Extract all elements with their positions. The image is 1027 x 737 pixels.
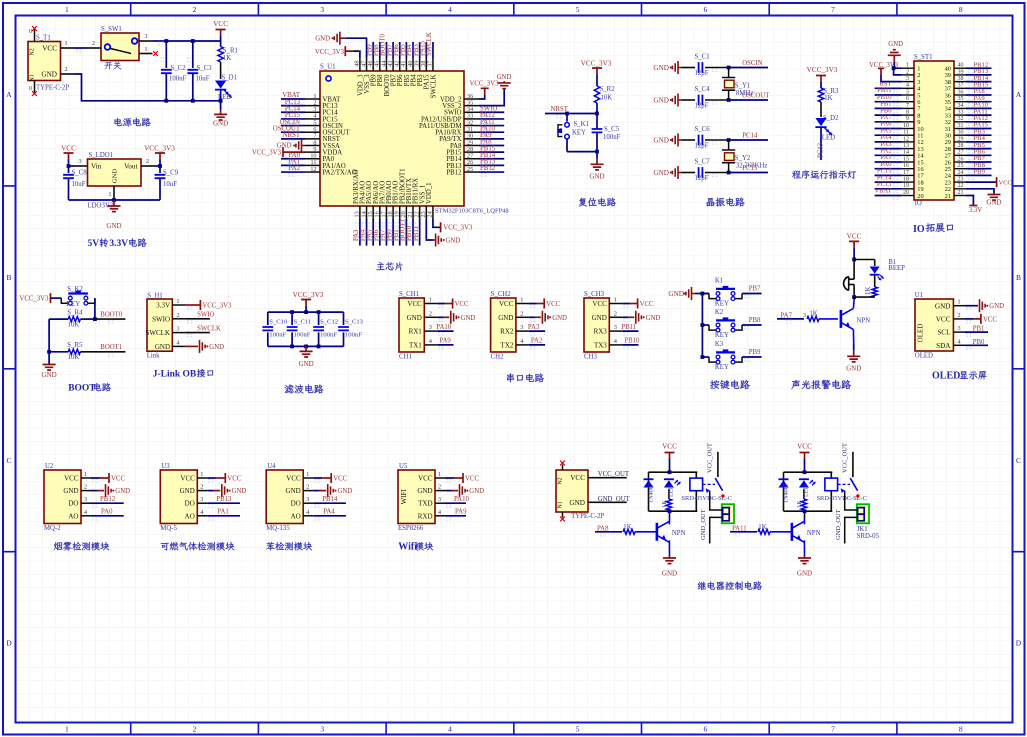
svg-text:S_C12: S_C12 bbox=[320, 319, 338, 326]
pin stub T2 bottom bbox=[562, 512, 564, 518]
pin U1 33 PA12/USB/DP bbox=[464, 118, 479, 120]
svg-text:2: 2 bbox=[193, 725, 197, 734]
pin U1 28 PB15 bbox=[464, 151, 479, 153]
svg-text:1: 1 bbox=[306, 471, 309, 478]
relay coil SRD-05VDC-SL-C bbox=[695, 472, 697, 478]
svg-text:12pF: 12pF bbox=[695, 143, 709, 150]
svg-text:GND: GND bbox=[653, 169, 669, 177]
junction bbox=[164, 99, 168, 103]
pin U1 13 PA3/RX/AO bbox=[359, 206, 361, 219]
pin U1 24 VDD_1 bbox=[432, 206, 434, 219]
svg-text:K3: K3 bbox=[715, 341, 724, 348]
title 串口电路 bbox=[507, 373, 514, 382]
svg-text:1N4007: 1N4007 bbox=[783, 483, 790, 503]
pin stub T1 shield top bbox=[34, 30, 36, 42]
svg-text:3: 3 bbox=[803, 312, 806, 319]
pin U1 45 PB8 bbox=[379, 58, 381, 71]
svg-text:SWCLK: SWCLK bbox=[146, 329, 171, 337]
svg-text:WIFI: WIFI bbox=[400, 489, 408, 505]
wire/net PB9 bbox=[372, 42, 374, 58]
pin U1 35 VSS_2 bbox=[464, 105, 479, 107]
wire/net PA7 left bbox=[875, 121, 902, 123]
svg-text:4: 4 bbox=[448, 725, 452, 734]
net PA10 bbox=[445, 502, 466, 504]
title 苯检测模块 bbox=[266, 542, 275, 550]
svg-text:VCC: VCC bbox=[213, 20, 228, 28]
power GND at VSS_3 bbox=[346, 38, 367, 58]
svg-text:GND: GND bbox=[213, 120, 228, 128]
svg-text:7: 7 bbox=[831, 5, 835, 14]
svg-text:CH2: CH2 bbox=[491, 353, 504, 360]
ground GND S_CH2 bbox=[529, 316, 535, 318]
ground GND S_CH3 bbox=[622, 316, 628, 318]
junction bbox=[93, 317, 97, 321]
wire filter top rail bbox=[268, 311, 344, 313]
svg-text:S_CH3: S_CH3 bbox=[584, 291, 605, 298]
svg-text:AO: AO bbox=[291, 512, 301, 520]
svg-text:12: 12 bbox=[903, 136, 909, 142]
wire/net PA12 bbox=[479, 118, 504, 120]
svg-text:3: 3 bbox=[957, 325, 960, 332]
svg-text:SWCLK: SWCLK bbox=[430, 74, 437, 98]
pin ST1 14 bbox=[902, 154, 914, 156]
svg-text:VCC_3V3: VCC_3V3 bbox=[202, 303, 232, 310]
svg-text:12pF: 12pF bbox=[695, 103, 709, 110]
pin U1 41 PB5 bbox=[405, 58, 407, 71]
svg-text:GND: GND bbox=[646, 315, 661, 322]
pin ST1 8 bbox=[902, 114, 914, 116]
svg-text:VCC: VCC bbox=[936, 316, 951, 324]
svg-text:Vout: Vout bbox=[124, 163, 137, 171]
wire/net PC14 left bbox=[875, 181, 902, 183]
svg-text:U4: U4 bbox=[267, 463, 276, 470]
junction bbox=[595, 112, 599, 116]
svg-text:GND: GND bbox=[63, 487, 78, 495]
junction bbox=[191, 39, 195, 43]
ground GND boot bbox=[43, 364, 56, 370]
svg-text:DO: DO bbox=[291, 500, 301, 508]
title 按键电路 bbox=[710, 380, 719, 389]
net VCC_OUT bbox=[588, 477, 601, 479]
wire/net PA3 bbox=[359, 219, 361, 246]
pin U1 2 PC13 bbox=[305, 105, 320, 107]
svg-text:9: 9 bbox=[906, 116, 909, 122]
svg-text:KEY: KEY bbox=[715, 332, 729, 339]
svg-text:3: 3 bbox=[200, 496, 203, 503]
power VCC U5 bbox=[445, 477, 454, 479]
svg-text:VCC: VCC bbox=[61, 145, 76, 153]
svg-text:BOOT1: BOOT1 bbox=[100, 344, 122, 351]
svg-text:NRST: NRST bbox=[283, 132, 301, 139]
svg-text:12pF: 12pF bbox=[695, 70, 709, 77]
svg-text:VCC: VCC bbox=[418, 475, 433, 483]
svg-text:PA1: PA1 bbox=[217, 509, 228, 516]
wire/net OSCOUT bbox=[729, 99, 768, 101]
relay coil SRD-05VDC-SL-C bbox=[830, 472, 832, 478]
junction bbox=[852, 258, 856, 262]
svg-text:GND: GND bbox=[42, 371, 57, 379]
svg-text:OLED: OLED bbox=[917, 324, 925, 343]
wire SW1 to VCC rail bbox=[153, 40, 221, 42]
wire/net PC15 bbox=[281, 118, 305, 120]
wire/net OSCOUT bbox=[281, 131, 305, 133]
svg-text:B: B bbox=[1016, 273, 1021, 282]
pin ST1 19 bbox=[902, 188, 914, 190]
power VCC_3V3 jlink bbox=[185, 304, 200, 306]
svg-text:TX3: TX3 bbox=[594, 341, 607, 349]
svg-text:PB11: PB11 bbox=[621, 324, 636, 331]
svg-text:0: 0 bbox=[29, 86, 32, 92]
pin U1 3 PC14 bbox=[305, 111, 320, 113]
wire/net PA10 right bbox=[966, 107, 992, 109]
net PB10 bbox=[622, 344, 638, 346]
net PA9 bbox=[445, 515, 466, 517]
wire reset bottom bbox=[567, 151, 597, 153]
svg-text:PB13: PB13 bbox=[216, 496, 232, 503]
key S_K1 bbox=[566, 114, 568, 122]
module U2 MQ-2 bbox=[44, 470, 81, 524]
pin ST1 30 bbox=[954, 134, 966, 136]
pin U1 30 PA9/TX bbox=[464, 138, 479, 140]
wire/net PB10 left bbox=[875, 101, 902, 103]
pin ST1 23 bbox=[954, 181, 966, 183]
net PA4 bbox=[313, 515, 346, 517]
module U4 MQ-135 bbox=[266, 470, 303, 524]
wire/net PA11 bbox=[479, 125, 504, 127]
net GND_OUT bbox=[588, 501, 601, 503]
wire/net OSCIN bbox=[729, 67, 768, 69]
svg-text:12pF: 12pF bbox=[695, 175, 709, 182]
ground GND filter bbox=[300, 346, 313, 357]
pin ST1 28 bbox=[954, 148, 966, 150]
pin U1 9 VDDA bbox=[305, 151, 320, 153]
svg-text:22: 22 bbox=[958, 183, 964, 189]
wire GND rail power bbox=[74, 74, 221, 101]
svg-text:VCC: VCC bbox=[546, 301, 560, 308]
capacitor S_C8 bbox=[69, 165, 75, 167]
diode LED relay bbox=[664, 480, 674, 487]
pin ST1 36 bbox=[954, 94, 966, 96]
net PA1 bbox=[207, 515, 240, 517]
svg-text:30: 30 bbox=[958, 130, 964, 136]
svg-text:AO: AO bbox=[185, 512, 195, 520]
wire/net PB5 right bbox=[966, 148, 992, 150]
svg-text:2: 2 bbox=[200, 484, 203, 491]
pin ST1 1 bbox=[902, 67, 914, 69]
pin ST1 31 bbox=[954, 128, 966, 130]
svg-text:D: D bbox=[6, 639, 12, 648]
svg-text:GND: GND bbox=[668, 290, 684, 298]
svg-text:Wifi: Wifi bbox=[398, 542, 417, 553]
svg-text:34: 34 bbox=[958, 103, 964, 109]
svg-text:VCC: VCC bbox=[333, 476, 347, 483]
svg-text:Link: Link bbox=[147, 353, 160, 360]
svg-text:7: 7 bbox=[906, 103, 909, 109]
svg-text:1: 1 bbox=[144, 46, 147, 53]
svg-text:7: 7 bbox=[831, 725, 835, 734]
net PB9 bbox=[742, 356, 762, 358]
svg-text:OLED: OLED bbox=[915, 352, 933, 359]
pin U1 38 PA15 bbox=[425, 58, 427, 71]
net PB11 bbox=[622, 330, 638, 332]
svg-text:40: 40 bbox=[958, 63, 964, 69]
wire collector relay bbox=[669, 511, 671, 517]
svg-text:2: 2 bbox=[92, 40, 95, 47]
svg-text:S_T1: S_T1 bbox=[36, 35, 51, 42]
capacitor S_C9 bbox=[155, 165, 161, 167]
svg-text:S_R5: S_R5 bbox=[67, 342, 83, 349]
svg-text:3: 3 bbox=[176, 326, 179, 333]
svg-text:PB8: PB8 bbox=[749, 317, 761, 324]
svg-text:S_ST1: S_ST1 bbox=[914, 54, 933, 61]
net SWIO jlink bbox=[185, 318, 210, 320]
svg-text:PA10: PA10 bbox=[454, 496, 469, 503]
wire/net PA6 bbox=[379, 219, 381, 246]
wire/net SWIO bbox=[479, 111, 504, 113]
power VCC io right bbox=[966, 181, 997, 183]
ground GND ldo bbox=[112, 198, 116, 202]
svg-text:37: 37 bbox=[427, 61, 434, 67]
wire/net PC14 bbox=[281, 111, 305, 113]
svg-text:1: 1 bbox=[957, 299, 960, 306]
title 烟雾检测模块 bbox=[54, 542, 63, 550]
switch S_SW1 bbox=[101, 33, 139, 61]
svg-text:35: 35 bbox=[958, 96, 964, 102]
svg-text:PA9: PA9 bbox=[439, 338, 451, 345]
wire/net PA1 bbox=[281, 164, 305, 166]
ground GND io right bbox=[966, 189, 994, 193]
svg-text:BOOT: BOOT bbox=[68, 384, 96, 394]
svg-text:4: 4 bbox=[448, 5, 452, 14]
wire/net OSCIN bbox=[281, 125, 305, 127]
svg-text:PC13: PC13 bbox=[818, 142, 825, 158]
svg-text:6: 6 bbox=[703, 5, 707, 14]
svg-text:GND: GND bbox=[986, 199, 1001, 207]
svg-text:STM32F103C8T6_LQFP48: STM32F103C8T6_LQFP48 bbox=[435, 208, 509, 215]
svg-text:31: 31 bbox=[958, 123, 964, 129]
svg-text:RX2: RX2 bbox=[500, 328, 514, 336]
svg-text:VCC: VCC bbox=[286, 475, 301, 483]
svg-text:1: 1 bbox=[200, 471, 203, 478]
resistor S_R1 bbox=[220, 41, 222, 47]
wire/net PA4 bbox=[366, 219, 368, 246]
pin ST1 40 bbox=[954, 67, 966, 69]
module U3 MQ-5 bbox=[160, 470, 197, 524]
svg-text:S_D1: S_D1 bbox=[222, 75, 238, 82]
svg-text:0: 0 bbox=[29, 29, 32, 35]
svg-text:VCC: VCC bbox=[180, 475, 195, 483]
svg-text:5: 5 bbox=[576, 5, 580, 14]
svg-text:S_CH2: S_CH2 bbox=[491, 291, 512, 298]
svg-text:PA2: PA2 bbox=[289, 165, 301, 172]
diode 1N4007 bbox=[779, 480, 789, 487]
net GND_OUT relay bbox=[845, 517, 858, 543]
wire relay left vertical bbox=[648, 472, 650, 511]
svg-text:GND: GND bbox=[338, 488, 353, 495]
svg-text:PB10: PB10 bbox=[624, 338, 640, 345]
transistor NPN relay bbox=[791, 523, 794, 541]
svg-text:3: 3 bbox=[438, 496, 441, 503]
svg-text:GND: GND bbox=[417, 487, 432, 495]
svg-text:VCC_3V3: VCC_3V3 bbox=[252, 150, 282, 157]
svg-text:VCC_3V3: VCC_3V3 bbox=[807, 66, 838, 74]
svg-text:TX1: TX1 bbox=[409, 341, 422, 349]
svg-text:Vin: Vin bbox=[91, 163, 102, 171]
pin U1 37 SWCLK bbox=[432, 58, 434, 71]
svg-text:S_K1: S_K1 bbox=[574, 121, 590, 128]
svg-text:GND: GND bbox=[497, 74, 512, 81]
wire/net PA5 bbox=[372, 219, 374, 246]
net PB7 bbox=[742, 293, 762, 295]
svg-text:D: D bbox=[1016, 639, 1022, 648]
pin U1 42 PB6 bbox=[399, 58, 401, 71]
svg-text:10: 10 bbox=[903, 123, 909, 129]
wire/net PA9 right bbox=[966, 101, 992, 103]
svg-text:GND: GND bbox=[315, 36, 330, 43]
terminal block bbox=[857, 504, 869, 523]
pin U1 31 PA10/RX bbox=[464, 131, 479, 133]
wire/net PB4 bbox=[412, 42, 414, 58]
pin U1 5 OSCIN bbox=[305, 125, 320, 127]
title 继电器控制电路 bbox=[698, 582, 706, 590]
pin ST1 4 bbox=[902, 87, 914, 89]
svg-text:25: 25 bbox=[958, 163, 964, 169]
svg-text:S_C6: S_C6 bbox=[695, 126, 711, 133]
pin U1 17 PA7/AO bbox=[385, 206, 387, 219]
svg-text:10K: 10K bbox=[68, 354, 80, 361]
svg-text:38: 38 bbox=[958, 76, 964, 82]
svg-text:AO: AO bbox=[68, 512, 78, 520]
wire/net PC13 left bbox=[875, 188, 902, 190]
buzzer B1 BEEP bbox=[848, 277, 850, 291]
svg-text:K2: K2 bbox=[715, 309, 724, 316]
wire/net VBAT left bbox=[875, 195, 902, 197]
wire relay top rail bbox=[784, 471, 833, 473]
wire/net PA15 bbox=[425, 42, 427, 58]
svg-text:32: 32 bbox=[958, 116, 964, 122]
terminal block bbox=[722, 504, 734, 523]
pin U1 14 PA4/AO bbox=[366, 206, 368, 219]
svg-text:VCC_OUT: VCC_OUT bbox=[842, 443, 849, 473]
svg-text:VCC_3V3: VCC_3V3 bbox=[19, 296, 49, 303]
ground GND U4 bbox=[313, 490, 320, 492]
svg-text:BOOT0: BOOT0 bbox=[100, 311, 123, 318]
svg-text:1N4007: 1N4007 bbox=[648, 483, 655, 503]
wire/net PA8 bbox=[479, 144, 504, 146]
title 复位电路 bbox=[579, 198, 588, 207]
wire/net PB11 bbox=[419, 219, 421, 246]
svg-text:S_C11: S_C11 bbox=[294, 319, 312, 326]
svg-text:S_R3: S_R3 bbox=[823, 88, 839, 95]
wire ldo gnd rail bbox=[69, 199, 161, 201]
svg-text:C: C bbox=[6, 456, 11, 465]
svg-text:3: 3 bbox=[320, 5, 324, 14]
ground GND at VSS_1 bbox=[426, 219, 433, 240]
svg-text:100nF: 100nF bbox=[269, 332, 286, 339]
svg-text:3: 3 bbox=[78, 158, 81, 165]
wire/net PB12 bbox=[479, 171, 504, 173]
svg-text:VCC_3V3: VCC_3V3 bbox=[315, 49, 345, 56]
svg-text:A: A bbox=[6, 90, 12, 99]
diode LED alarm bbox=[874, 260, 876, 267]
svg-text:27: 27 bbox=[958, 150, 964, 156]
wire alarm top bbox=[854, 259, 875, 261]
svg-text:10uF: 10uF bbox=[163, 181, 177, 188]
svg-text:S_R4: S_R4 bbox=[67, 309, 83, 316]
svg-text:10K: 10K bbox=[601, 95, 613, 102]
wire/net PB9 right bbox=[966, 174, 992, 176]
svg-text:17: 17 bbox=[903, 170, 909, 176]
header S_CH2 bbox=[491, 298, 516, 352]
pin ST1 39 bbox=[954, 74, 966, 76]
capacitor S_C5 bbox=[596, 114, 598, 130]
svg-text:4: 4 bbox=[906, 83, 909, 89]
power VCC_3V3 at VDD_2 bbox=[479, 95, 485, 99]
svg-text:10uF: 10uF bbox=[72, 181, 86, 188]
display U1 OLED bbox=[915, 299, 953, 351]
svg-text:100nF: 100nF bbox=[294, 332, 311, 339]
svg-text:3: 3 bbox=[306, 496, 309, 503]
svg-text:1K: 1K bbox=[865, 287, 872, 295]
svg-text:PA2: PA2 bbox=[531, 338, 543, 345]
svg-text:VCC: VCC bbox=[999, 180, 1012, 187]
svg-text:2: 2 bbox=[64, 66, 67, 73]
net PB12 bbox=[91, 502, 124, 504]
wire/net PB0 left bbox=[875, 114, 902, 116]
svg-text:5: 5 bbox=[906, 89, 909, 95]
pin U1 43 PB7 bbox=[392, 58, 394, 71]
title 可燃气体检测模块 bbox=[161, 543, 169, 551]
svg-text:16: 16 bbox=[903, 163, 909, 169]
wire collector relay bbox=[804, 511, 806, 517]
pin U1 48 VDD_3 bbox=[359, 58, 361, 71]
svg-text:100nF: 100nF bbox=[169, 76, 187, 83]
resistor S_R2 bbox=[594, 86, 599, 103]
ground GND U3 bbox=[207, 490, 214, 492]
wire/net PA6 left bbox=[875, 128, 902, 130]
svg-text:RXD: RXD bbox=[418, 512, 433, 520]
wire/net PC15 bbox=[729, 172, 768, 174]
svg-text:S_CH1: S_CH1 bbox=[399, 291, 419, 298]
pin stub T2 top bbox=[562, 465, 564, 471]
svg-text:2: 2 bbox=[306, 484, 309, 491]
svg-text:K1: K1 bbox=[715, 278, 723, 285]
svg-text:U3: U3 bbox=[161, 463, 170, 470]
svg-text:S_C2: S_C2 bbox=[171, 65, 187, 72]
svg-text:PB7: PB7 bbox=[749, 285, 761, 292]
svg-text:PA9: PA9 bbox=[455, 509, 467, 516]
ground GND alarm bbox=[853, 344, 855, 351]
svg-text:GND: GND bbox=[662, 570, 677, 578]
svg-text:15: 15 bbox=[903, 156, 909, 162]
label 开关 bbox=[105, 62, 113, 69]
svg-text:GND: GND bbox=[569, 499, 585, 507]
svg-text:3.3V: 3.3V bbox=[156, 302, 170, 310]
ground GND power circuit bbox=[219, 99, 223, 103]
wire relay bottom rail bbox=[649, 510, 698, 512]
svg-text:S_U1: S_U1 bbox=[320, 64, 336, 71]
title 主芯片 bbox=[376, 262, 384, 270]
svg-text:GND: GND bbox=[797, 570, 812, 578]
pin U1 36 VDD_2 bbox=[464, 98, 479, 100]
capacitor S_C6 bbox=[682, 139, 696, 141]
wire/net PA4 left bbox=[875, 141, 902, 143]
svg-text:MQ-135: MQ-135 bbox=[266, 525, 290, 532]
svg-text:GND: GND bbox=[653, 64, 669, 72]
pin stub T1 shield bottom bbox=[34, 81, 36, 93]
wire/net PA15 right bbox=[966, 128, 992, 130]
svg-text:SWCLK: SWCLK bbox=[197, 325, 221, 332]
